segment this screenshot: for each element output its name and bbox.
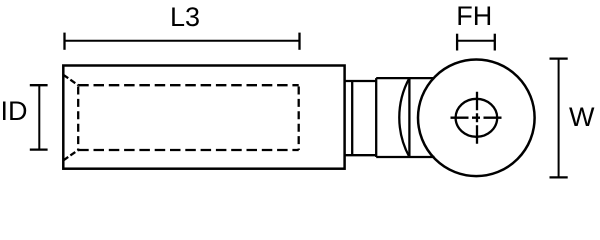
bore end hidden line bbox=[298, 87, 300, 151]
svg-text:FH: FH bbox=[456, 1, 492, 31]
dimension line W bbox=[558, 59, 560, 178]
svg-text:L3: L3 bbox=[170, 2, 200, 32]
entry chamfer hidden line bottom bbox=[63, 150, 78, 160]
dimension tick FH right bbox=[494, 34, 496, 51]
entry chamfer hidden line top bbox=[63, 75, 78, 85]
dimension line FH bbox=[457, 40, 495, 42]
svg-text:ID: ID bbox=[1, 96, 28, 126]
collar top edge bbox=[345, 80, 377, 82]
dimension tick L3 right bbox=[298, 33, 300, 50]
palm right edge bbox=[408, 78, 410, 157]
center mark vertical bbox=[476, 92, 478, 144]
dimension line L3 bbox=[65, 40, 300, 42]
dimension cap ID bottom bbox=[30, 148, 48, 150]
dimension tick FH left bbox=[456, 34, 458, 51]
ring pad circle bbox=[418, 60, 535, 177]
dimension cap W bottom bbox=[550, 176, 568, 178]
transition arc bbox=[399, 78, 409, 157]
bore cone base hidden line bbox=[77, 87, 79, 151]
bore hidden line top bbox=[78, 84, 299, 86]
dimension line ID bbox=[38, 85, 40, 149]
dimension cap W top bbox=[550, 57, 568, 59]
bolt hole circle bbox=[456, 99, 498, 137]
barrel outline bbox=[63, 66, 344, 169]
svg-text:W: W bbox=[569, 102, 595, 132]
palm bottom edge bbox=[376, 156, 434, 158]
collar seam bbox=[351, 81, 353, 155]
technical drawing: ring terminal top view bbox=[0, 0, 600, 179]
dimension tick L3 left bbox=[63, 33, 65, 50]
palm top edge bbox=[376, 77, 434, 79]
bore hidden line bottom bbox=[78, 149, 299, 151]
palm left edge bbox=[375, 78, 377, 157]
center mark horizontal bbox=[451, 117, 502, 119]
dimension cap ID top bbox=[30, 84, 48, 86]
collar bottom edge bbox=[345, 154, 377, 156]
